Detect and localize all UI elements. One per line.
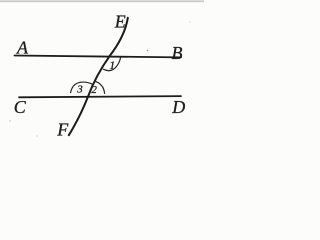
angle arc 2 — [95, 81, 104, 93]
svg-text:B: B — [172, 43, 183, 63]
angle arc 3 — [71, 82, 93, 93]
svg-text:A: A — [16, 37, 29, 57]
speck noise — [9, 120, 10, 121]
svg-text:D: D — [171, 97, 185, 117]
speck noise — [36, 135, 37, 136]
speck noise — [147, 50, 149, 52]
angle arc 1 — [103, 58, 120, 71]
transversal EF — [69, 18, 128, 135]
scan edge artifact top — [0, 0, 204, 2]
svg-text:E: E — [114, 12, 126, 32]
line AB — [15, 56, 182, 58]
svg-text:1: 1 — [109, 58, 115, 72]
svg-text:C: C — [14, 97, 27, 117]
line CD — [19, 96, 181, 97]
svg-text:3: 3 — [76, 83, 83, 95]
speck noise — [189, 21, 190, 22]
svg-text:2: 2 — [91, 84, 97, 96]
svg-text:F: F — [56, 119, 69, 139]
